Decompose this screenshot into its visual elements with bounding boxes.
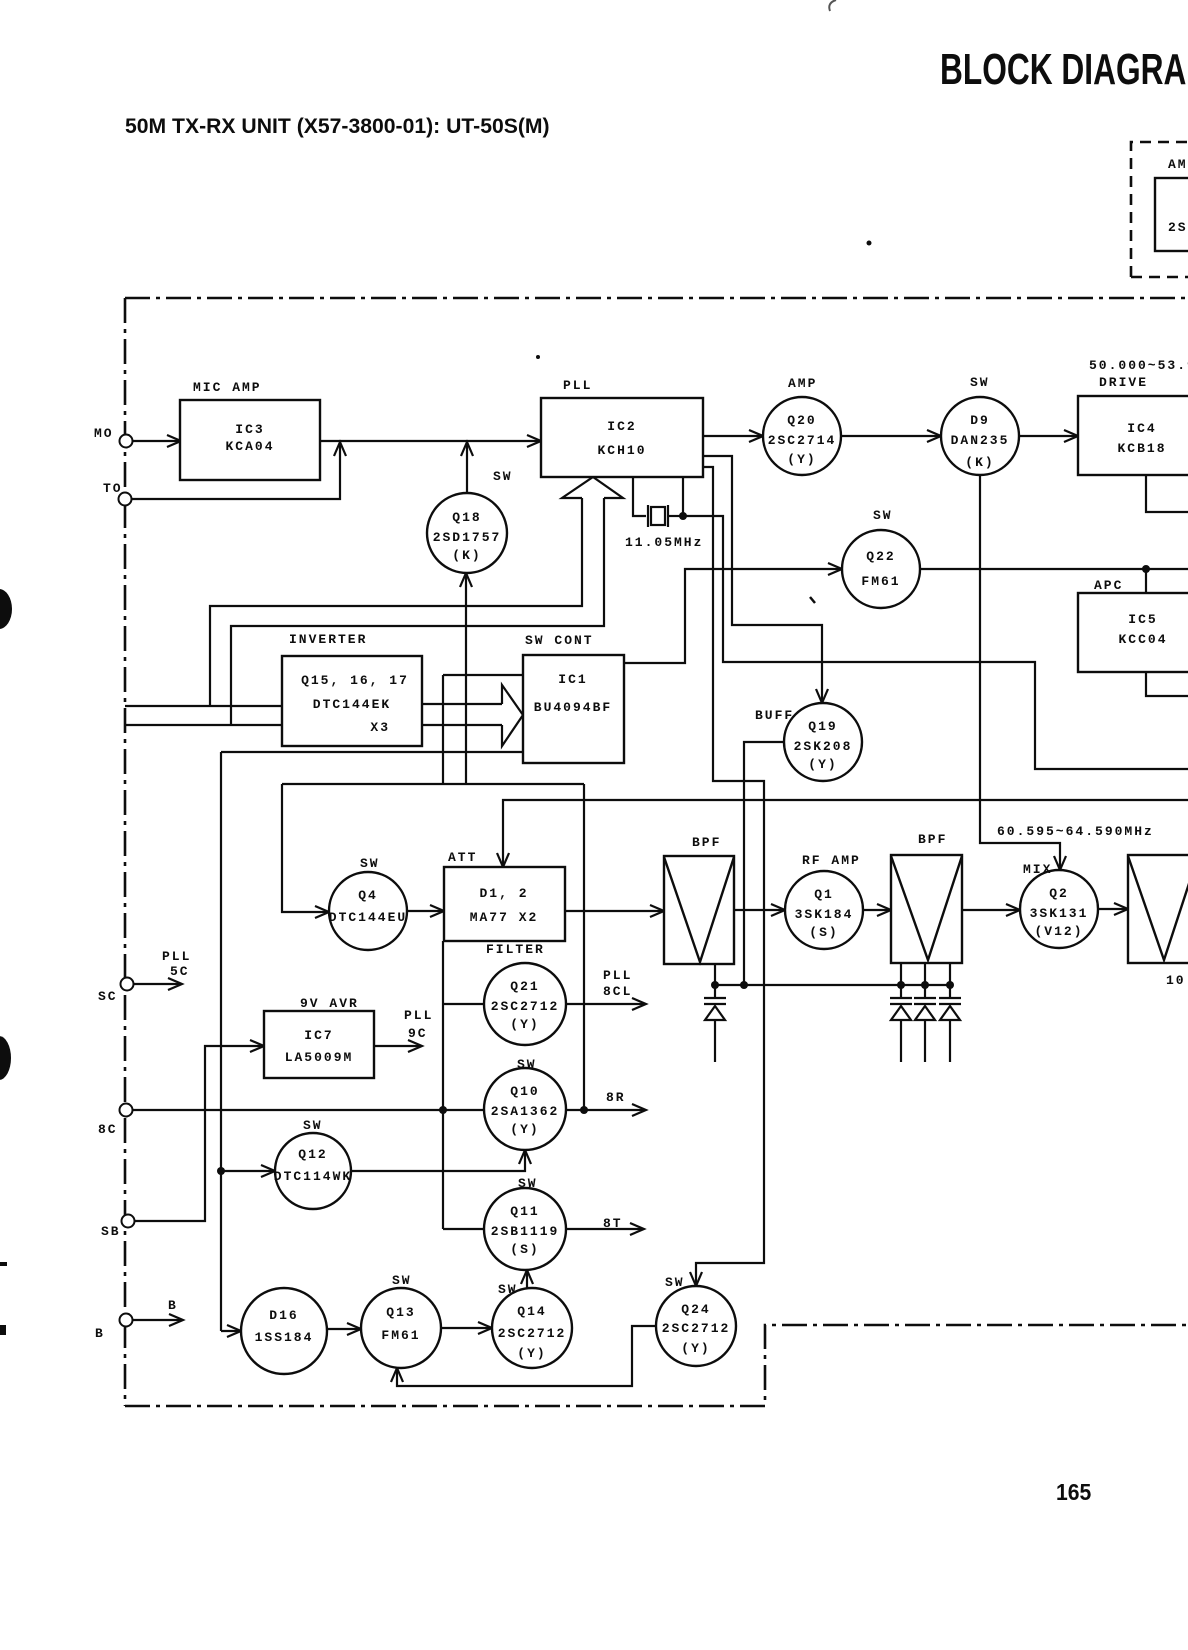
svg-text:3SK184: 3SK184 xyxy=(795,907,854,922)
svg-text:SW: SW xyxy=(873,508,893,523)
svg-text:DTC144EU: DTC144EU xyxy=(329,910,407,925)
svg-text:Q19: Q19 xyxy=(808,719,837,734)
wire Q1 to BPF2 xyxy=(863,909,890,911)
svg-text:165: 165 xyxy=(1056,1479,1091,1505)
transistor Q14 2SC2712 (SW) xyxy=(492,1288,572,1368)
wire Q14 up into Q11 xyxy=(526,1273,528,1288)
svg-text:APC: APC xyxy=(1094,578,1123,593)
svg-text:DAN235: DAN235 xyxy=(951,433,1010,448)
svg-text:9V AVR: 9V AVR xyxy=(300,996,359,1011)
wire Q13 to Q14 xyxy=(441,1327,490,1329)
svg-text:Q18: Q18 xyxy=(452,510,481,525)
wire SW bus to Q4 and 8R node xyxy=(282,783,584,785)
svg-text:LA5009M: LA5009M xyxy=(285,1050,354,1065)
svg-text:PLL: PLL xyxy=(404,1008,433,1023)
9V AVR block IC7 LA5009M xyxy=(264,1011,374,1078)
wire IC4 bottom to right edge xyxy=(1146,475,1188,512)
svg-text:KCC04: KCC04 xyxy=(1118,632,1167,647)
svg-text:PLL: PLL xyxy=(603,968,632,983)
wire from border (lower) with riser to block arrow right rail xyxy=(125,724,282,726)
bottom dash-dot unit border with step xyxy=(125,1325,1188,1406)
wire long vertical control bus x=443 (upper) xyxy=(442,675,444,783)
svg-text:ATT: ATT xyxy=(448,850,477,865)
wire Q12 output up into Q10 xyxy=(351,1153,525,1171)
wire Q21 output PLL 8CL arrow xyxy=(566,1003,644,1005)
wire IC7 output PLL 9C arrow xyxy=(374,1045,420,1047)
svg-text:PLL: PLL xyxy=(162,949,191,964)
svg-text:(V12): (V12) xyxy=(1034,924,1083,939)
wire D9 to IC4 xyxy=(1019,435,1077,437)
svg-text:BLOCK DIAGRAM: BLOCK DIAGRAM xyxy=(940,45,1188,94)
svg-text:(K): (K) xyxy=(965,455,994,470)
BPF block 2 xyxy=(891,855,962,963)
inverter block Q15,16,17 DTC144EK xyxy=(282,656,422,746)
wire IC3 output to IC2 xyxy=(320,440,540,442)
svg-text:FM61: FM61 xyxy=(861,574,900,589)
wire varactor bus under BPFs xyxy=(715,984,950,986)
wire MO input to IC3 xyxy=(132,440,180,442)
svg-text:SW: SW xyxy=(498,1282,518,1297)
svg-text:DTC114WK: DTC114WK xyxy=(274,1169,352,1184)
terminal 8C xyxy=(120,1104,133,1117)
BPF block 1 xyxy=(664,856,734,964)
transistor Q20 2SC2714 (AMP) xyxy=(763,397,841,475)
svg-text:KCB18: KCB18 xyxy=(1117,441,1166,456)
svg-text:SW: SW xyxy=(518,1176,538,1191)
svg-text:FILTER: FILTER xyxy=(486,942,545,957)
svg-text:(Y): (Y) xyxy=(808,757,837,772)
transistor Q21 2SC2712 (FILTER) xyxy=(484,963,566,1045)
page title BLOCK DIAGRAM xyxy=(940,45,1188,94)
crystal X1 11.05MHz xyxy=(647,505,649,527)
svg-text:2SC2714: 2SC2714 xyxy=(768,433,837,448)
svg-text:2SC2712: 2SC2712 xyxy=(662,1321,731,1336)
svg-text:BU4094BF: BU4094BF xyxy=(534,700,612,715)
diode D9 DAN235 (SW) xyxy=(941,397,1019,475)
wire IC1 lower input from control bus xyxy=(221,751,522,753)
svg-text:8C: 8C xyxy=(98,1122,118,1137)
scan artifact tick left 3 xyxy=(0,1262,7,1266)
svg-text:AM: AM xyxy=(1168,157,1188,172)
svg-text:(S): (S) xyxy=(809,925,838,940)
svg-text:Q21: Q21 xyxy=(510,979,539,994)
varactor diode at x=715 xyxy=(704,997,726,999)
wire IC2 right pin down to Q19 buffer xyxy=(703,456,822,700)
scan artifact blob left 1 xyxy=(0,589,12,629)
wire Q18 collector up to MIC line xyxy=(466,444,468,493)
svg-text:X3: X3 xyxy=(370,720,390,735)
wire SC output arrow xyxy=(133,983,180,985)
svg-text:Q15, 16, 17: Q15, 16, 17 xyxy=(301,673,409,688)
svg-text:2SC2712: 2SC2712 xyxy=(491,999,560,1014)
svg-text:2SB1119: 2SB1119 xyxy=(491,1224,560,1239)
wire BPF2 varactor drops xyxy=(900,963,902,998)
svg-text:IC3: IC3 xyxy=(235,422,264,437)
terminal SB xyxy=(122,1215,135,1228)
wire ATT to BPF1 xyxy=(565,910,662,912)
node crystal junction xyxy=(679,512,687,520)
svg-text:BUFF: BUFF xyxy=(755,708,794,723)
wire Q18 base feed from SW-bus xyxy=(465,576,467,784)
svg-text:FM61: FM61 xyxy=(381,1328,420,1343)
svg-text:(Y): (Y) xyxy=(510,1122,539,1137)
wire IC2 bottom to crystal left xyxy=(633,477,646,516)
diode D16 1SS184 xyxy=(241,1288,327,1374)
svg-text:D9: D9 xyxy=(970,413,990,428)
wire Q4 to ATT D1,2 xyxy=(407,910,443,912)
svg-text:Q20: Q20 xyxy=(787,413,816,428)
wire long vertical control bus x=443 (lower) xyxy=(442,941,444,1229)
node varactor bus junction x=925 xyxy=(921,981,929,989)
wire down to 8R node xyxy=(583,784,585,1110)
svg-text:Q24: Q24 xyxy=(681,1302,710,1317)
wire IC1 out to Q22 xyxy=(624,569,841,663)
svg-text:MIX: MIX xyxy=(1023,862,1052,877)
wire SB up into IC7 xyxy=(134,1046,262,1221)
block bus arrow into IC2 bottom xyxy=(562,477,623,498)
svg-text:SW: SW xyxy=(517,1057,537,1072)
svg-text:SW: SW xyxy=(303,1118,323,1133)
attenuator block D1,2 MA77 X2 xyxy=(444,867,565,941)
svg-text:50.000~53.9: 50.000~53.9 xyxy=(1089,358,1188,373)
svg-text:SB: SB xyxy=(101,1224,121,1239)
wire Q11 output 8T arrow xyxy=(566,1228,643,1230)
svg-text:BPF: BPF xyxy=(692,835,721,850)
svg-text:D1, 2: D1, 2 xyxy=(479,886,528,901)
transistor Q19 2SK208 (BUFF) xyxy=(784,703,862,781)
svg-text:(K): (K) xyxy=(452,548,481,563)
wire IC2 right pin down to Q24 (long vertical) xyxy=(696,467,764,1283)
wire Q22 output to right edge xyxy=(920,568,1188,570)
svg-text:MIC AMP: MIC AMP xyxy=(193,380,262,395)
svg-text:IC7: IC7 xyxy=(304,1028,333,1043)
wire TO input joining MIC AMP output xyxy=(131,444,340,499)
op-amp block IC3 KCA04 (MIC AMP) xyxy=(180,400,320,480)
svg-text:50M TX-RX UNIT (X57-3800-01):: 50M TX-RX UNIT (X57-3800-01): UT-50S(M) xyxy=(125,114,550,138)
wire IC2 to Q20 xyxy=(703,435,762,437)
varactor diode at x=950 xyxy=(939,997,961,999)
svg-text:AMP: AMP xyxy=(788,376,817,391)
svg-text:IC2: IC2 xyxy=(607,419,636,434)
svg-text:(S): (S) xyxy=(510,1242,539,1257)
svg-text:2SK208: 2SK208 xyxy=(794,739,853,754)
svg-text:(Y): (Y) xyxy=(517,1346,546,1361)
wire BPF2 to Q2 MIX xyxy=(962,909,1019,911)
transistor Q10 2SA1362 (SW) xyxy=(484,1068,566,1150)
wire Q24 base back to Q13 xyxy=(397,1326,656,1386)
wire crystal node right, down and to right edge xyxy=(683,516,1188,769)
scan artifact dot 2 xyxy=(536,355,540,359)
svg-text:8T: 8T xyxy=(603,1216,623,1231)
transistor Q18 2SD1757 (SW) xyxy=(427,493,507,573)
svg-text:Q2: Q2 xyxy=(1049,886,1069,901)
svg-text:MA77 X2: MA77 X2 xyxy=(470,910,539,925)
scan artifact blob left 2 xyxy=(0,1036,11,1080)
wire bus into D16 xyxy=(221,1330,239,1332)
top dash-dot unit border xyxy=(125,297,1188,300)
svg-text:10.: 10. xyxy=(1166,973,1188,988)
svg-text:B: B xyxy=(168,1298,178,1313)
wire IC2 bottom to crystal node xyxy=(682,477,684,516)
wire B output arrow xyxy=(132,1319,181,1321)
svg-text:(Y): (Y) xyxy=(681,1341,710,1356)
svg-text:60.595~64.590MHz: 60.595~64.590MHz xyxy=(997,824,1154,839)
svg-text:IC5: IC5 xyxy=(1128,612,1157,627)
transistor Q13 FM61 (SW) xyxy=(361,1288,441,1368)
node varactor bus junction x=901 xyxy=(897,981,905,989)
transistor Q1 3SK184 (RF AMP) xyxy=(785,871,863,949)
svg-text:RF AMP: RF AMP xyxy=(802,853,861,868)
svg-text:Q10: Q10 xyxy=(510,1084,539,1099)
wire Q2 to BPF3 xyxy=(1098,908,1127,910)
varactor diode at x=925 xyxy=(914,997,936,999)
svg-text:Q22: Q22 xyxy=(866,549,895,564)
wire into Q11 base xyxy=(443,1228,483,1230)
terminal B xyxy=(120,1314,133,1327)
scan artifact dot 1 xyxy=(867,241,872,246)
svg-text:2SC2712: 2SC2712 xyxy=(498,1326,567,1341)
svg-text:SW: SW xyxy=(360,856,380,871)
svg-text:2S: 2S xyxy=(1168,220,1188,235)
drive block IC4 KCB18 xyxy=(1078,396,1188,475)
wire branch down into IC5 top xyxy=(1145,569,1147,593)
node varactor bus junction x=950 xyxy=(946,981,954,989)
svg-text:8R: 8R xyxy=(606,1090,626,1105)
transistor Q11 2SB1119 (SW) xyxy=(484,1188,566,1270)
wire Q20 to D9 xyxy=(841,435,940,437)
wire IC5 bottom to right edge xyxy=(1146,672,1188,696)
BPF block 3 (clipped at right edge) xyxy=(1128,855,1188,963)
SW CONT block IC1 BU4094BF xyxy=(523,655,624,763)
svg-text:IC1: IC1 xyxy=(558,672,587,687)
wire PLL control to ATT (top feed line) xyxy=(503,800,1188,864)
page number 165 xyxy=(1056,1479,1091,1505)
svg-text:Q1: Q1 xyxy=(814,887,834,902)
svg-text:INVERTER: INVERTER xyxy=(289,632,367,647)
svg-text:Q11: Q11 xyxy=(510,1204,539,1219)
varactor diode at x=901 xyxy=(890,997,912,999)
svg-text:11.05MHz: 11.05MHz xyxy=(625,535,703,550)
transistor Q4 DTC144EU (SW) xyxy=(329,872,407,950)
wire D9 down to MIX Q2 (60.595~64.590MHz) xyxy=(980,475,1060,868)
svg-text:SC: SC xyxy=(98,989,118,1004)
wire Q19 gate left and down to varactor bus xyxy=(744,742,784,985)
transistor Q12 DTC114WK (SW) xyxy=(275,1133,351,1209)
node varactor bus junction x=715 xyxy=(711,981,719,989)
svg-text:KCA04: KCA04 xyxy=(225,439,274,454)
svg-text:1SS184: 1SS184 xyxy=(255,1330,314,1345)
transistor Q24 2SC2712 (SW) xyxy=(656,1286,736,1366)
wire 8C line through Q10 to 8R arrow xyxy=(132,1109,645,1111)
wire D16 to Q13 xyxy=(327,1328,359,1330)
svg-text:PLL: PLL xyxy=(563,378,592,393)
svg-text:KCH10: KCH10 xyxy=(597,443,646,458)
svg-text:DTC144EK: DTC144EK xyxy=(313,697,391,712)
svg-text:D16: D16 xyxy=(269,1308,298,1323)
wire crystal right to node xyxy=(668,515,683,517)
wire Q12 input from bus xyxy=(217,1167,225,1175)
terminal MO xyxy=(120,435,133,448)
svg-text:5C: 5C xyxy=(170,964,190,979)
terminal SC xyxy=(121,978,134,991)
scan artifact tick left 4 xyxy=(0,1325,6,1335)
PLL block IC2 KCH10 xyxy=(541,398,703,477)
AM sub-unit inner box (clipped) xyxy=(1155,178,1188,251)
APC block IC5 KCC04 xyxy=(1078,593,1188,672)
wire riser into IC1 pin xyxy=(443,674,522,676)
svg-text:SW: SW xyxy=(493,469,513,484)
dashed AM sub-unit box (top right, clipped) xyxy=(1131,142,1188,277)
wire from border to INVERTER (upper) with riser to block arrow left rail xyxy=(125,705,282,707)
subtitle 50M TX-RX UNIT xyxy=(125,114,550,138)
svg-text:2SA1362: 2SA1362 xyxy=(491,1104,560,1119)
svg-text:SW: SW xyxy=(665,1275,685,1290)
transistor Q22 FM61 (SW) xyxy=(842,530,920,608)
svg-text:SW: SW xyxy=(970,375,990,390)
left dash-dot unit border xyxy=(124,298,127,1406)
svg-text:Q13: Q13 xyxy=(386,1305,415,1320)
transistor Q2 3SK131 (MIX) xyxy=(1020,870,1098,948)
svg-text:TO: TO xyxy=(103,481,123,496)
svg-text:(Y): (Y) xyxy=(787,452,816,467)
svg-text:(Y): (Y) xyxy=(510,1017,539,1032)
wire BPF1 to Q1 xyxy=(734,909,784,911)
svg-text:BPF: BPF xyxy=(918,832,947,847)
node 8R junction xyxy=(580,1106,588,1114)
node junction Q22 line / IC5 xyxy=(1142,565,1150,573)
svg-text:DRIVE: DRIVE xyxy=(1099,375,1148,390)
svg-text:B: B xyxy=(95,1326,105,1341)
svg-text:3SK131: 3SK131 xyxy=(1030,906,1089,921)
svg-text:IC4: IC4 xyxy=(1127,421,1156,436)
svg-text:8CL: 8CL xyxy=(603,984,632,999)
scan artifact mark xyxy=(810,597,815,603)
node varactor bus junction x=744 xyxy=(740,981,748,989)
wire into Q21 base xyxy=(443,1003,483,1005)
terminal TO xyxy=(119,493,132,506)
wire BPF1 varactor drop xyxy=(714,964,716,998)
wire control bus down to Q12 / D16 xyxy=(220,752,222,1331)
svg-text:MO: MO xyxy=(94,426,114,441)
svg-text:SW: SW xyxy=(392,1273,412,1288)
svg-text:Q4: Q4 xyxy=(358,888,378,903)
block bus arrow into IC1 xyxy=(502,685,523,746)
svg-text:9C: 9C xyxy=(408,1026,428,1041)
svg-text:Q14: Q14 xyxy=(517,1304,546,1319)
svg-text:SW CONT: SW CONT xyxy=(525,633,594,648)
svg-text:2SD1757: 2SD1757 xyxy=(433,530,502,545)
scan artifact hook top xyxy=(829,0,836,11)
svg-text:Q12: Q12 xyxy=(298,1147,327,1162)
wire down to Q4 input xyxy=(282,784,327,912)
wire INVERTER to IC1 block arrow body xyxy=(422,704,502,725)
node 8C/control bus junction xyxy=(439,1106,447,1114)
